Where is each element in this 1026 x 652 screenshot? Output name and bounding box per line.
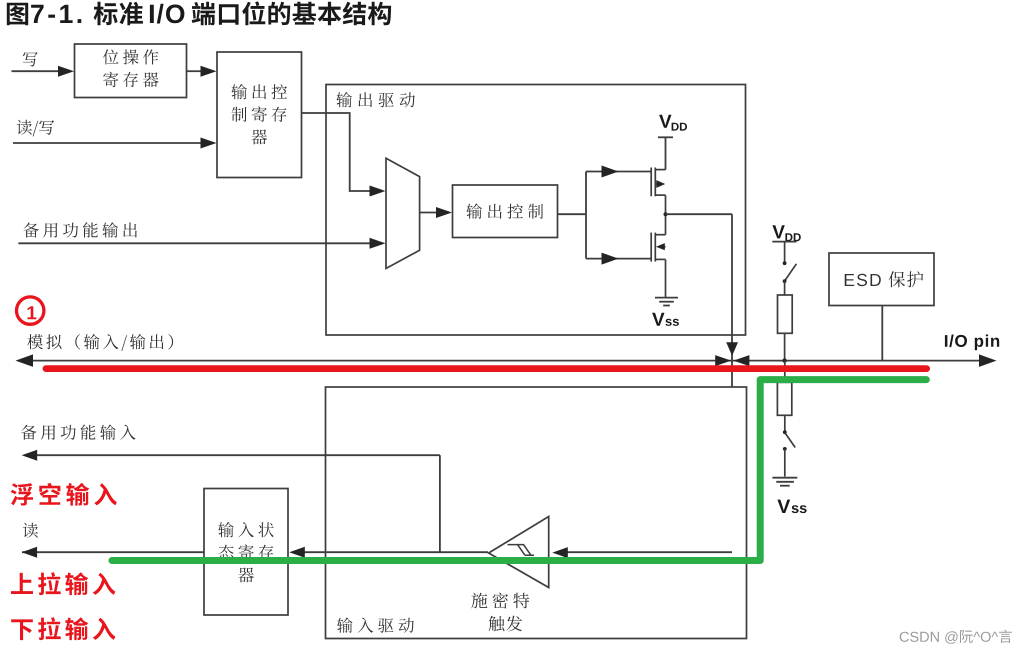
- block 输入状态寄存器 (input data register): [204, 489, 288, 616]
- block 位操作寄存器 (bit-operation register): [75, 44, 187, 98]
- label 器 (line 3): [252, 130, 268, 145]
- node: output-driver junction arrows on I/O net: [726, 342, 738, 356]
- power VDD bar (pull-up): [772, 241, 796, 243]
- ground symbol Vss (push-pull source): [655, 298, 678, 306]
- red label 浮空输入 (floating input): [11, 483, 117, 506]
- label 输入状 (line 1): [218, 522, 274, 537]
- power V_DD rail label (push-pull): [659, 115, 687, 131]
- label 寄存器 (line 2): [103, 72, 158, 88]
- switch: pull-down enable: [783, 430, 787, 434]
- label 输出控 (line 1): [231, 84, 287, 99]
- label 备用功能输入 (alternate function input): [21, 425, 136, 440]
- label ESD 保护: [845, 271, 924, 287]
- red annotation digit 1: [28, 306, 37, 319]
- wire: ESD protection to I/O net: [881, 306, 883, 361]
- label 触发 (trigger): [489, 616, 523, 632]
- label Vss (pull-down ground): [777, 500, 806, 513]
- multiplexer (output source select): [386, 158, 420, 268]
- resistor: pull-down: [784, 361, 786, 381]
- wire: output control register to multiplexer select input: [302, 113, 371, 191]
- label 制寄存 (line 2): [232, 106, 287, 122]
- label 写 (write): [23, 52, 38, 67]
- wire: gate branch vertical: [585, 172, 587, 259]
- wire: branch to P-MOS gate: [586, 171, 651, 173]
- block 输出控制寄存器 (output control register): [217, 52, 302, 178]
- wire: read/write into output control register: [13, 142, 202, 144]
- block ESD 保护 (ESD protection): [829, 253, 934, 306]
- wire: input state register to read bus: [22, 551, 204, 553]
- power V_DD label (pull-up): [772, 225, 800, 241]
- switch: pull-up enable: [784, 242, 786, 263]
- power VDD rail bar and wire to P-MOS source: [658, 136, 673, 138]
- wire: write signal into bit-operation register: [12, 70, 61, 72]
- arrowhead: I/O net right end (to pin): [979, 354, 997, 367]
- resistor: pull-up: [784, 281, 786, 295]
- label 态寄存 (line 2): [218, 544, 273, 560]
- label Vss (push-pull ground): [652, 313, 679, 326]
- wire: Schmitt output to input state register: [303, 551, 488, 553]
- label 器 (line 3): [238, 568, 254, 583]
- wire: I/O net to Schmitt trigger input: [566, 551, 732, 553]
- block 输出控制 (output control logic): [453, 185, 558, 238]
- arrowhead: I/O net left end: [16, 354, 34, 367]
- red annotation circled ①: [17, 297, 44, 324]
- node: push-pull drain junction: [664, 212, 668, 216]
- label 位操作 (line 1): [103, 49, 158, 64]
- wire: output control to gate-drive branch: [558, 213, 587, 215]
- transistor N-MOS (lower, push-pull): [651, 214, 665, 297]
- label 读/写 (read/write): [17, 120, 55, 137]
- wire: branch to N-MOS gate: [586, 258, 651, 260]
- label 模拟（输入/输出） analog in/out: [27, 334, 173, 351]
- label 输出驱动: [336, 92, 415, 107]
- label I/O pin: [945, 335, 999, 351]
- red label 上拉输入 (pull-up input): [11, 572, 115, 595]
- label 读 (read): [23, 523, 38, 538]
- label 输出控制: [466, 204, 543, 219]
- label 备用功能输出 (alternate function output): [23, 222, 137, 237]
- red label 下拉输入 (pull-down input): [11, 617, 115, 640]
- wire: multiplexer to 输出控制 block: [420, 212, 438, 214]
- wire: alternate function input tap: [30, 454, 440, 456]
- green highlight path (input path): [112, 380, 926, 561]
- Schmitt trigger (input buffer): [489, 517, 549, 588]
- wire: bit-operation register to output control register: [187, 70, 203, 72]
- ground symbol Vss (pull-down): [772, 478, 797, 486]
- transistor P-MOS (upper, push-pull): [651, 168, 665, 215]
- node: pull-up chain on I/O net: [782, 358, 786, 362]
- label 施密特 (Schmitt): [471, 593, 529, 609]
- watermark CSDN @阮^O^言: [900, 630, 1012, 644]
- wire: alternate function output into multiplexer: [18, 242, 370, 244]
- block 输入驱动 (input driver): [326, 387, 747, 639]
- wire: push-pull output to I/O pin line: [666, 213, 733, 215]
- figure title 图 7-1. 标准 I/O 端口位的基本结构: [7, 1, 391, 25]
- block 输出驱动 (output driver): [326, 85, 746, 336]
- label 输入驱动: [337, 618, 414, 633]
- wire: I/O pin horizontal net: [24, 360, 988, 362]
- red highlight line (analog path): [46, 365, 927, 372]
